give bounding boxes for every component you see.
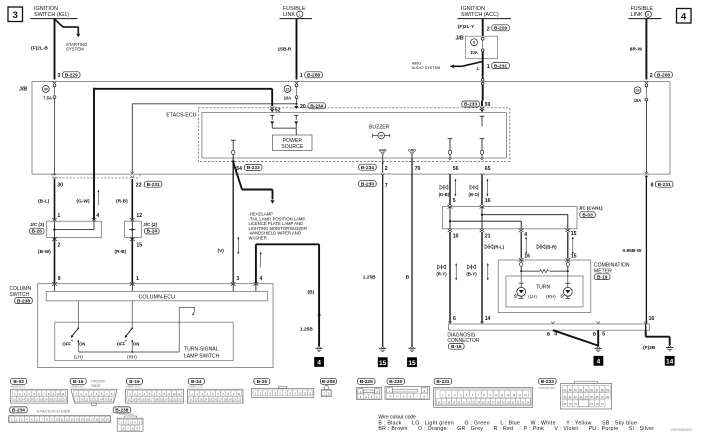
svg-text:1.25B: 1.25B: [300, 327, 313, 333]
svg-text:J/C (3): J/C (3): [30, 222, 45, 227]
svg-text:A86G: A86G: [412, 62, 422, 66]
svg-text:7.5A: 7.5A: [43, 96, 52, 101]
svg-text:HBF09E000C: HBF09E000C: [671, 428, 693, 432]
svg-text:(MB803766): (MB803766): [539, 386, 556, 390]
svg-text:(RH): (RH): [127, 354, 137, 359]
svg-text:12: 12: [136, 213, 142, 219]
svg-text:BR : Brown O : Orange: BR : Brown O : Orange GR : Grey R : Red …: [378, 426, 654, 432]
svg-text:1: 1: [136, 276, 139, 282]
svg-text:MB801615: MB801615: [188, 384, 203, 388]
svg-text:10A: 10A: [284, 96, 292, 101]
svg-text:5: 5: [602, 332, 605, 338]
svg-text:B-238: B-238: [17, 298, 30, 304]
svg-text:15: 15: [408, 360, 416, 367]
svg-text:SWITCH: SWITCH: [9, 292, 29, 298]
svg-text:8R-W: 8R-W: [630, 46, 643, 52]
svg-text:B-231: B-231: [658, 182, 671, 188]
svg-text:SOURCE: SOURCE: [281, 144, 304, 150]
svg-text:16: 16: [485, 198, 491, 204]
svg-text:(R-B): (R-B): [116, 199, 128, 205]
svg-text:70: 70: [415, 166, 421, 172]
svg-text:METER: METER: [594, 268, 612, 274]
svg-text:B: B: [406, 275, 410, 281]
svg-text:(B): (B): [308, 289, 315, 295]
svg-text:B-234: B-234: [310, 104, 323, 110]
svg-text:15A: 15A: [634, 98, 642, 103]
svg-text:14: 14: [485, 316, 491, 322]
svg-text:SIDE: SIDE: [91, 383, 101, 388]
svg-text:4: 4: [597, 359, 601, 366]
svg-text:2: 2: [385, 166, 388, 172]
svg-text:6: 6: [647, 13, 649, 17]
svg-text:2: 2: [487, 26, 490, 32]
svg-text:52: 52: [275, 107, 281, 113]
svg-text:WASHER: WASHER: [249, 235, 267, 240]
svg-text:BUZZER: BUZZER: [369, 124, 390, 130]
svg-text:10A: 10A: [470, 50, 478, 55]
svg-text:6: 6: [453, 316, 456, 322]
svg-text:L: L: [477, 66, 480, 71]
svg-text:ON: ON: [133, 342, 139, 347]
svg-text:B-234: B-234: [12, 408, 25, 414]
svg-text:4: 4: [681, 12, 687, 23]
svg-text:(F)2L-Y: (F)2L-Y: [458, 24, 475, 30]
svg-text:B-230: B-230: [389, 379, 402, 385]
svg-text:B: B: [547, 332, 551, 338]
svg-text:15: 15: [136, 243, 142, 249]
svg-text:B-233: B-233: [541, 379, 554, 385]
svg-text:J/B: J/B: [19, 87, 27, 93]
svg-text:14: 14: [666, 359, 674, 366]
svg-text:4: 4: [260, 276, 263, 282]
svg-text:CONNECTOR: CONNECTOR: [447, 338, 480, 344]
svg-text:B-208: B-208: [657, 73, 670, 79]
svg-text:B-234: B-234: [361, 165, 374, 171]
svg-text:10: 10: [453, 234, 459, 240]
svg-text:1: 1: [57, 213, 60, 219]
svg-text:9: 9: [58, 276, 61, 282]
svg-text:16: 16: [649, 316, 655, 322]
svg-text:4: 4: [317, 360, 321, 367]
svg-text:B-233: B-233: [247, 165, 260, 171]
svg-text:POWER: POWER: [282, 138, 302, 144]
svg-text:B-19: B-19: [597, 274, 608, 280]
svg-text:0.85B-W: 0.85B-W: [623, 248, 642, 254]
svg-text:ON: ON: [79, 342, 85, 347]
svg-text:SWITCH (IG1): SWITCH (IG1): [34, 12, 69, 18]
svg-text:OFF: OFF: [62, 342, 71, 347]
svg-text:(B-Y): (B-Y): [466, 272, 477, 277]
svg-text:COLUMN-ECU: COLUMN-ECU: [139, 294, 176, 300]
svg-text:65: 65: [485, 166, 491, 172]
svg-text:(G-W): (G-W): [77, 199, 90, 205]
svg-text:ETACS-ECU: ETACS-ECU: [166, 113, 196, 119]
svg-text:5: 5: [453, 198, 456, 204]
svg-text:B-229: B-229: [494, 26, 507, 32]
svg-text:B-229: B-229: [360, 379, 373, 385]
svg-text:3: 3: [236, 276, 239, 282]
svg-text:6: 6: [473, 41, 475, 45]
svg-text:10: 10: [286, 87, 290, 91]
svg-text:(R-B): (R-B): [115, 249, 127, 255]
svg-text:B-229: B-229: [65, 73, 78, 79]
svg-text:(B-L): (B-L): [38, 199, 50, 205]
svg-text:LAMP SWITCH: LAMP SWITCH: [184, 353, 220, 359]
svg-text:MB801937: MB801937: [70, 384, 85, 388]
svg-text:(F)2B: (F)2B: [643, 345, 656, 351]
svg-text:(B-O): (B-O): [469, 192, 480, 197]
svg-text:SWITCH (ACC): SWITCH (ACC): [461, 12, 499, 18]
svg-text:1.25B: 1.25B: [363, 275, 376, 281]
svg-text:B-230: B-230: [361, 181, 374, 187]
svg-text:B-16: B-16: [451, 344, 462, 350]
svg-text:SYSTEM: SYSTEM: [66, 47, 84, 52]
svg-text:(D-B): (D-B): [439, 192, 450, 197]
svg-text:B-26: B-26: [32, 229, 43, 235]
svg-text:15B-R: 15B-R: [278, 46, 292, 52]
svg-text:1: 1: [299, 13, 301, 17]
svg-text:B-03: B-03: [582, 212, 593, 218]
svg-text:59: 59: [485, 102, 491, 108]
svg-text:B-231: B-231: [494, 63, 507, 69]
svg-text:3: 3: [58, 73, 61, 79]
svg-text:(MB801514): (MB801514): [117, 412, 134, 416]
svg-text:4: 4: [96, 213, 99, 219]
svg-text:MB801815: MB801815: [127, 384, 142, 388]
svg-text:2: 2: [650, 73, 653, 79]
svg-text:B-24: B-24: [147, 229, 158, 235]
svg-text:MU801615: MU801615: [11, 384, 26, 388]
svg-text:16: 16: [524, 253, 530, 259]
svg-text:ETACS-ECU SIDE: ETACS-ECU SIDE: [37, 409, 71, 414]
svg-text:4: 4: [524, 232, 527, 238]
svg-text:1: 1: [487, 64, 490, 70]
svg-text:B-233: B-233: [464, 102, 477, 108]
svg-text:B-208: B-208: [307, 73, 320, 79]
svg-text:J/C (2): J/C (2): [143, 222, 158, 227]
svg-text:LINK: LINK: [283, 12, 295, 18]
svg-text:B-208: B-208: [322, 379, 335, 385]
svg-text:8: 8: [651, 183, 654, 189]
svg-text:30: 30: [57, 183, 63, 189]
svg-text:GND: GND: [408, 148, 416, 152]
svg-text:(B-R): (B-R): [546, 244, 557, 249]
svg-text:40: 40: [44, 87, 48, 91]
svg-text:LINK: LINK: [631, 12, 643, 18]
svg-text:B-231: B-231: [147, 182, 160, 188]
svg-text:AUDIO SYSTEM: AUDIO SYSTEM: [412, 66, 441, 70]
svg-text:B: B: [593, 332, 597, 338]
svg-text:2: 2: [57, 243, 60, 249]
svg-text:TURN-SIGNAL: TURN-SIGNAL: [184, 347, 219, 353]
svg-text:J/C (CAN1): J/C (CAN1): [579, 206, 603, 211]
svg-text:15: 15: [571, 253, 577, 259]
svg-text:3: 3: [13, 10, 18, 21]
svg-text:15: 15: [379, 360, 387, 367]
svg-text:15: 15: [571, 231, 577, 237]
svg-text:(LH): (LH): [528, 294, 537, 299]
svg-text:(F)2L-B: (F)2L-B: [31, 45, 48, 51]
svg-text:(R-Y): (R-Y): [436, 272, 447, 277]
svg-text:(V): (V): [218, 248, 225, 254]
svg-text:J/B: J/B: [456, 36, 464, 42]
svg-text:(RH): (RH): [546, 294, 556, 299]
svg-text:GND: GND: [379, 148, 387, 152]
svg-text:(LH): (LH): [74, 354, 83, 359]
svg-text:(B-W): (B-W): [38, 249, 51, 255]
svg-text:TURN: TURN: [536, 284, 550, 290]
svg-text:22: 22: [136, 183, 142, 189]
svg-text:33: 33: [636, 89, 640, 93]
svg-text:OFF: OFF: [117, 342, 126, 347]
svg-text:20: 20: [300, 104, 306, 110]
svg-text:B-231: B-231: [436, 379, 449, 385]
svg-text:(R-L): (R-L): [494, 244, 505, 249]
svg-text:7: 7: [385, 183, 388, 189]
svg-text:B-26: B-26: [257, 379, 268, 385]
svg-text:21: 21: [485, 234, 491, 240]
svg-text:1: 1: [300, 73, 303, 79]
svg-text:56: 56: [453, 166, 459, 172]
